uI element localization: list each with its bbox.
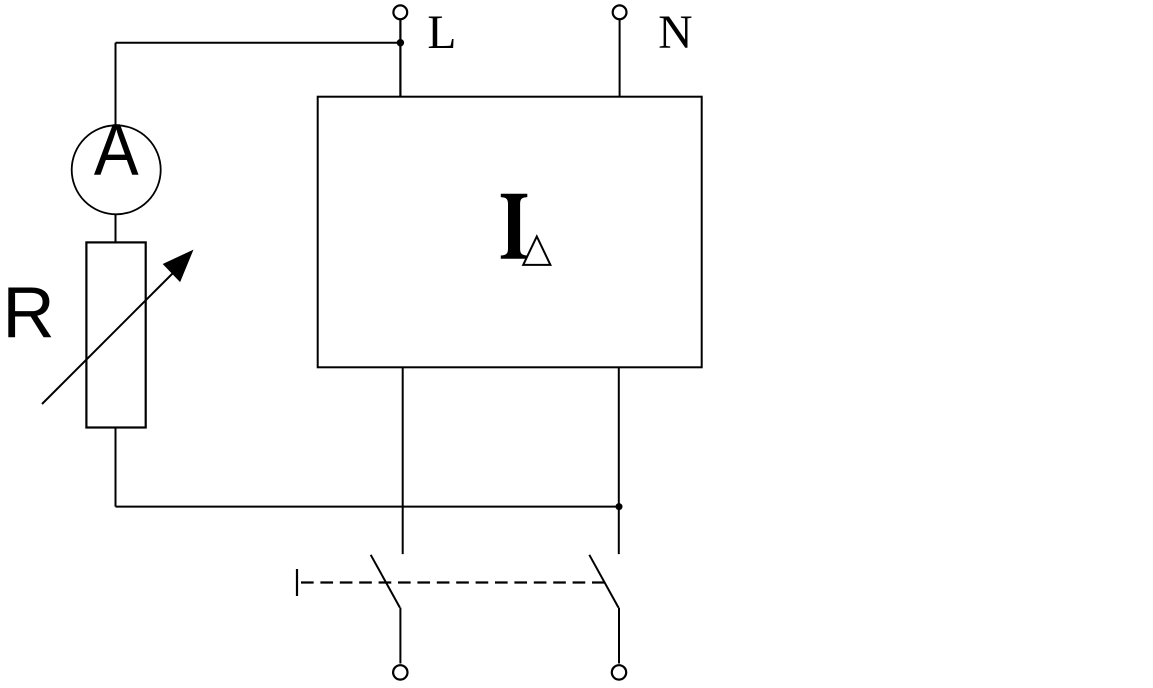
- terminal N: [613, 5, 627, 19]
- resistor arrow shaft: [42, 272, 174, 404]
- wire down to ammeter: [115, 43, 117, 125]
- linkage dashed line: [301, 581, 605, 583]
- wire top horizontal: [116, 42, 401, 44]
- ammeter A (circle): [72, 125, 161, 214]
- switch S1 blade: [371, 555, 400, 608]
- ammeter letter A: [94, 110, 139, 191]
- terminal L: [393, 5, 407, 19]
- switch S1 lower lead: [399, 608, 401, 664]
- switch S2 blade: [589, 555, 618, 608]
- svg-text:A: A: [94, 110, 139, 191]
- wire box bottom left: [402, 367, 404, 554]
- resistor arrowhead: [163, 250, 194, 283]
- label triangle subscript: [523, 236, 550, 265]
- wire bottom horizontal: [116, 506, 620, 508]
- linkage tick: [296, 569, 298, 596]
- node L junction dot: [397, 39, 404, 46]
- wire N terminal to box: [619, 20, 621, 97]
- svg-text:N: N: [658, 7, 692, 59]
- svg-text:L: L: [427, 7, 456, 59]
- resistor R body: [86, 242, 145, 427]
- svg-text:R: R: [2, 272, 54, 353]
- switch S2 lower lead: [618, 608, 620, 664]
- wire L terminal to box: [399, 20, 401, 97]
- wire box bottom right: [618, 367, 620, 554]
- RCD box: [318, 97, 702, 368]
- switch S2 terminal: [612, 665, 626, 679]
- wire ammeter to resistor: [115, 214, 117, 243]
- switch S1 terminal: [393, 665, 407, 679]
- label I: [501, 194, 528, 259]
- wire resistor down: [115, 428, 117, 507]
- node junction dot right: [616, 503, 623, 510]
